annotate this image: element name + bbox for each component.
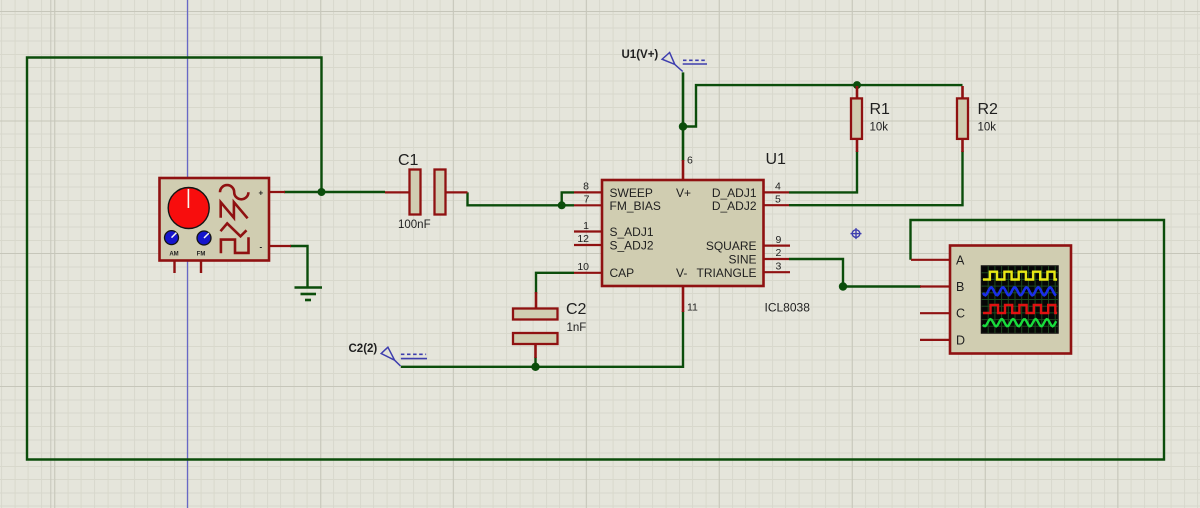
pin 11 stub [682, 285, 685, 312]
U1 pin labels right [696, 186, 756, 280]
svg-text:ICL8038: ICL8038 [765, 301, 811, 315]
svg-text:+: + [259, 189, 264, 198]
wire generator minus to ground [290, 246, 308, 287]
svg-text:5: 5 [775, 194, 781, 206]
svg-text:7: 7 [584, 194, 590, 206]
pin stub R1 bottom [856, 139, 859, 153]
svg-text:D_ADJ2: D_ADJ2 [712, 199, 757, 213]
svg-text:9: 9 [776, 234, 782, 246]
pin 8 stub [574, 191, 602, 193]
junction at R1 top [853, 81, 861, 89]
pin stub generator minus [268, 245, 292, 247]
pin 10 stub [574, 272, 602, 274]
wire R2 bottom to pin 5 [789, 151, 963, 205]
generator AM knob pointer [172, 233, 177, 238]
capacitor C2 top plate [513, 309, 558, 320]
svg-text:U1(V+): U1(V+) [622, 49, 659, 61]
generator AM knob [165, 231, 179, 245]
svg-text:FM: FM [197, 252, 206, 258]
pin stub generator plus [268, 191, 286, 193]
pin stub C1 left [385, 191, 410, 193]
generator sine glyph [220, 185, 248, 199]
oscilloscope body [950, 246, 1071, 354]
svg-text:12: 12 [577, 233, 589, 245]
wire pin 2 SINE to scope B [789, 259, 921, 287]
pin stub C1 right [446, 191, 468, 193]
pin 6 stub [682, 160, 685, 181]
svg-text:U1: U1 [766, 151, 787, 168]
svg-text:SINE: SINE [728, 252, 756, 266]
resistor R2 body [957, 98, 968, 138]
junction at FM_BIAS pin 7 [558, 201, 566, 209]
U1 pin numbers [577, 155, 781, 314]
svg-text:S_ADJ2: S_ADJ2 [610, 238, 654, 252]
svg-text:R1: R1 [870, 101, 891, 118]
wire C2 bottom stub to net [534, 357, 536, 367]
svg-text:8: 8 [583, 181, 589, 193]
svg-text:CAP: CAP [610, 266, 635, 280]
junction at C2 bottom [531, 363, 539, 371]
capacitor C1 right plate [435, 170, 446, 215]
sheet boundary blue line [187, 0, 189, 508]
pin stub R1 top [856, 86, 859, 99]
svg-text:10k: 10k [978, 122, 997, 134]
pin stub R2 bottom [961, 139, 964, 153]
wire C1 right to IC pins 7/8 [468, 192, 575, 205]
signal generator body [160, 178, 270, 261]
svg-text:4: 4 [775, 181, 781, 193]
svg-text:TRIANGLE: TRIANGLE [696, 266, 756, 280]
power terminal arrow [662, 53, 683, 72]
U1 pin labels left [610, 186, 692, 280]
wire generator plus output to junction [284, 191, 385, 193]
signal generator bottom pin 1 [173, 261, 175, 274]
pin stub C2 bottom [534, 344, 537, 359]
generator FM knob [197, 231, 211, 245]
svg-text:10: 10 [577, 261, 589, 273]
terminal C2(2) arrow [381, 347, 400, 366]
wire pin 11 to C2(2) terminal [401, 311, 683, 367]
svg-text:AM: AM [169, 252, 178, 258]
junction at SINE corner [839, 282, 847, 290]
svg-text:A: A [956, 253, 965, 267]
scope screen grid [982, 266, 1059, 333]
wire pin 10 to C2 top [536, 273, 574, 294]
pin stub C2 top [535, 292, 538, 309]
pin 7 stub [574, 204, 602, 206]
svg-text:6: 6 [687, 155, 693, 167]
svg-text:-: - [260, 243, 263, 252]
wire R1 bottom to pin 4 [789, 151, 857, 192]
pin 9 stub [764, 245, 791, 247]
svg-text:100nF: 100nF [398, 219, 431, 231]
scope pin D stub [920, 339, 950, 341]
svg-text:D_ADJ1: D_ADJ1 [712, 186, 757, 200]
generator sawtooth glyph [221, 202, 248, 218]
wire outer loop top-left segment [27, 58, 1164, 460]
wire power terminal down to pin 6 [682, 72, 685, 161]
svg-text:1: 1 [583, 220, 589, 232]
svg-text:11: 11 [687, 302, 698, 314]
generator FM knob pointer [204, 233, 209, 238]
scope screen [982, 266, 1059, 333]
junction at generator output [318, 188, 326, 196]
resistor R1 body [851, 98, 862, 138]
wire junction up to pin 8 [562, 192, 574, 205]
generator red knob pointer [187, 189, 189, 208]
svg-text:SQUARE: SQUARE [706, 239, 757, 253]
pin 5 stub [764, 204, 790, 206]
svg-text:V+: V+ [676, 186, 691, 200]
svg-text:1nF: 1nF [567, 322, 587, 334]
scope pin C stub [920, 312, 950, 314]
generator square glyph [221, 237, 249, 253]
svg-text:D: D [956, 333, 965, 347]
ground symbol [295, 288, 323, 301]
svg-text:C1: C1 [398, 152, 419, 169]
pin 3 stub [764, 271, 791, 273]
svg-text:C: C [956, 307, 965, 321]
svg-text:S_ADJ1: S_ADJ1 [610, 225, 654, 239]
scope trace D green sine wave [983, 319, 1056, 326]
wire power junction to rail [683, 85, 963, 126]
signal generator bottom pin 2 [200, 261, 202, 274]
pin 2 stub [764, 258, 790, 260]
power terminal bars [683, 59, 707, 61]
scope pin A stub [911, 259, 950, 261]
scope trace C red square wave [983, 305, 1057, 313]
pin 12 stub [574, 244, 602, 246]
op-amp IC U1 body ICL8038 [602, 180, 764, 286]
generator main red knob [168, 188, 209, 229]
terminal C2(2) bars [401, 353, 426, 355]
svg-text:3: 3 [776, 261, 782, 273]
svg-text:C2: C2 [566, 301, 587, 318]
scope pin B stub [920, 285, 950, 287]
svg-text:C2(2): C2(2) [349, 343, 378, 355]
scope trace B blue sine wave [983, 287, 1056, 295]
origin marker [851, 228, 862, 239]
junction at power rail [679, 122, 687, 130]
capacitor C2 bottom plate [513, 333, 558, 344]
svg-text:SWEEP: SWEEP [610, 186, 653, 200]
svg-text:10k: 10k [870, 122, 889, 134]
svg-text:FM_BIAS: FM_BIAS [610, 199, 661, 213]
svg-text:R2: R2 [978, 101, 999, 118]
capacitor C1 left plate [410, 170, 421, 215]
scope trace A yellow square wave [983, 272, 1057, 280]
svg-text:B: B [956, 280, 964, 294]
svg-text:2: 2 [776, 247, 782, 259]
pin 1 stub [574, 230, 602, 232]
generator triangle glyph [221, 223, 247, 236]
pin 4 stub [764, 191, 790, 193]
svg-text:V-: V- [676, 266, 687, 280]
pin stub R2 top [961, 86, 964, 99]
